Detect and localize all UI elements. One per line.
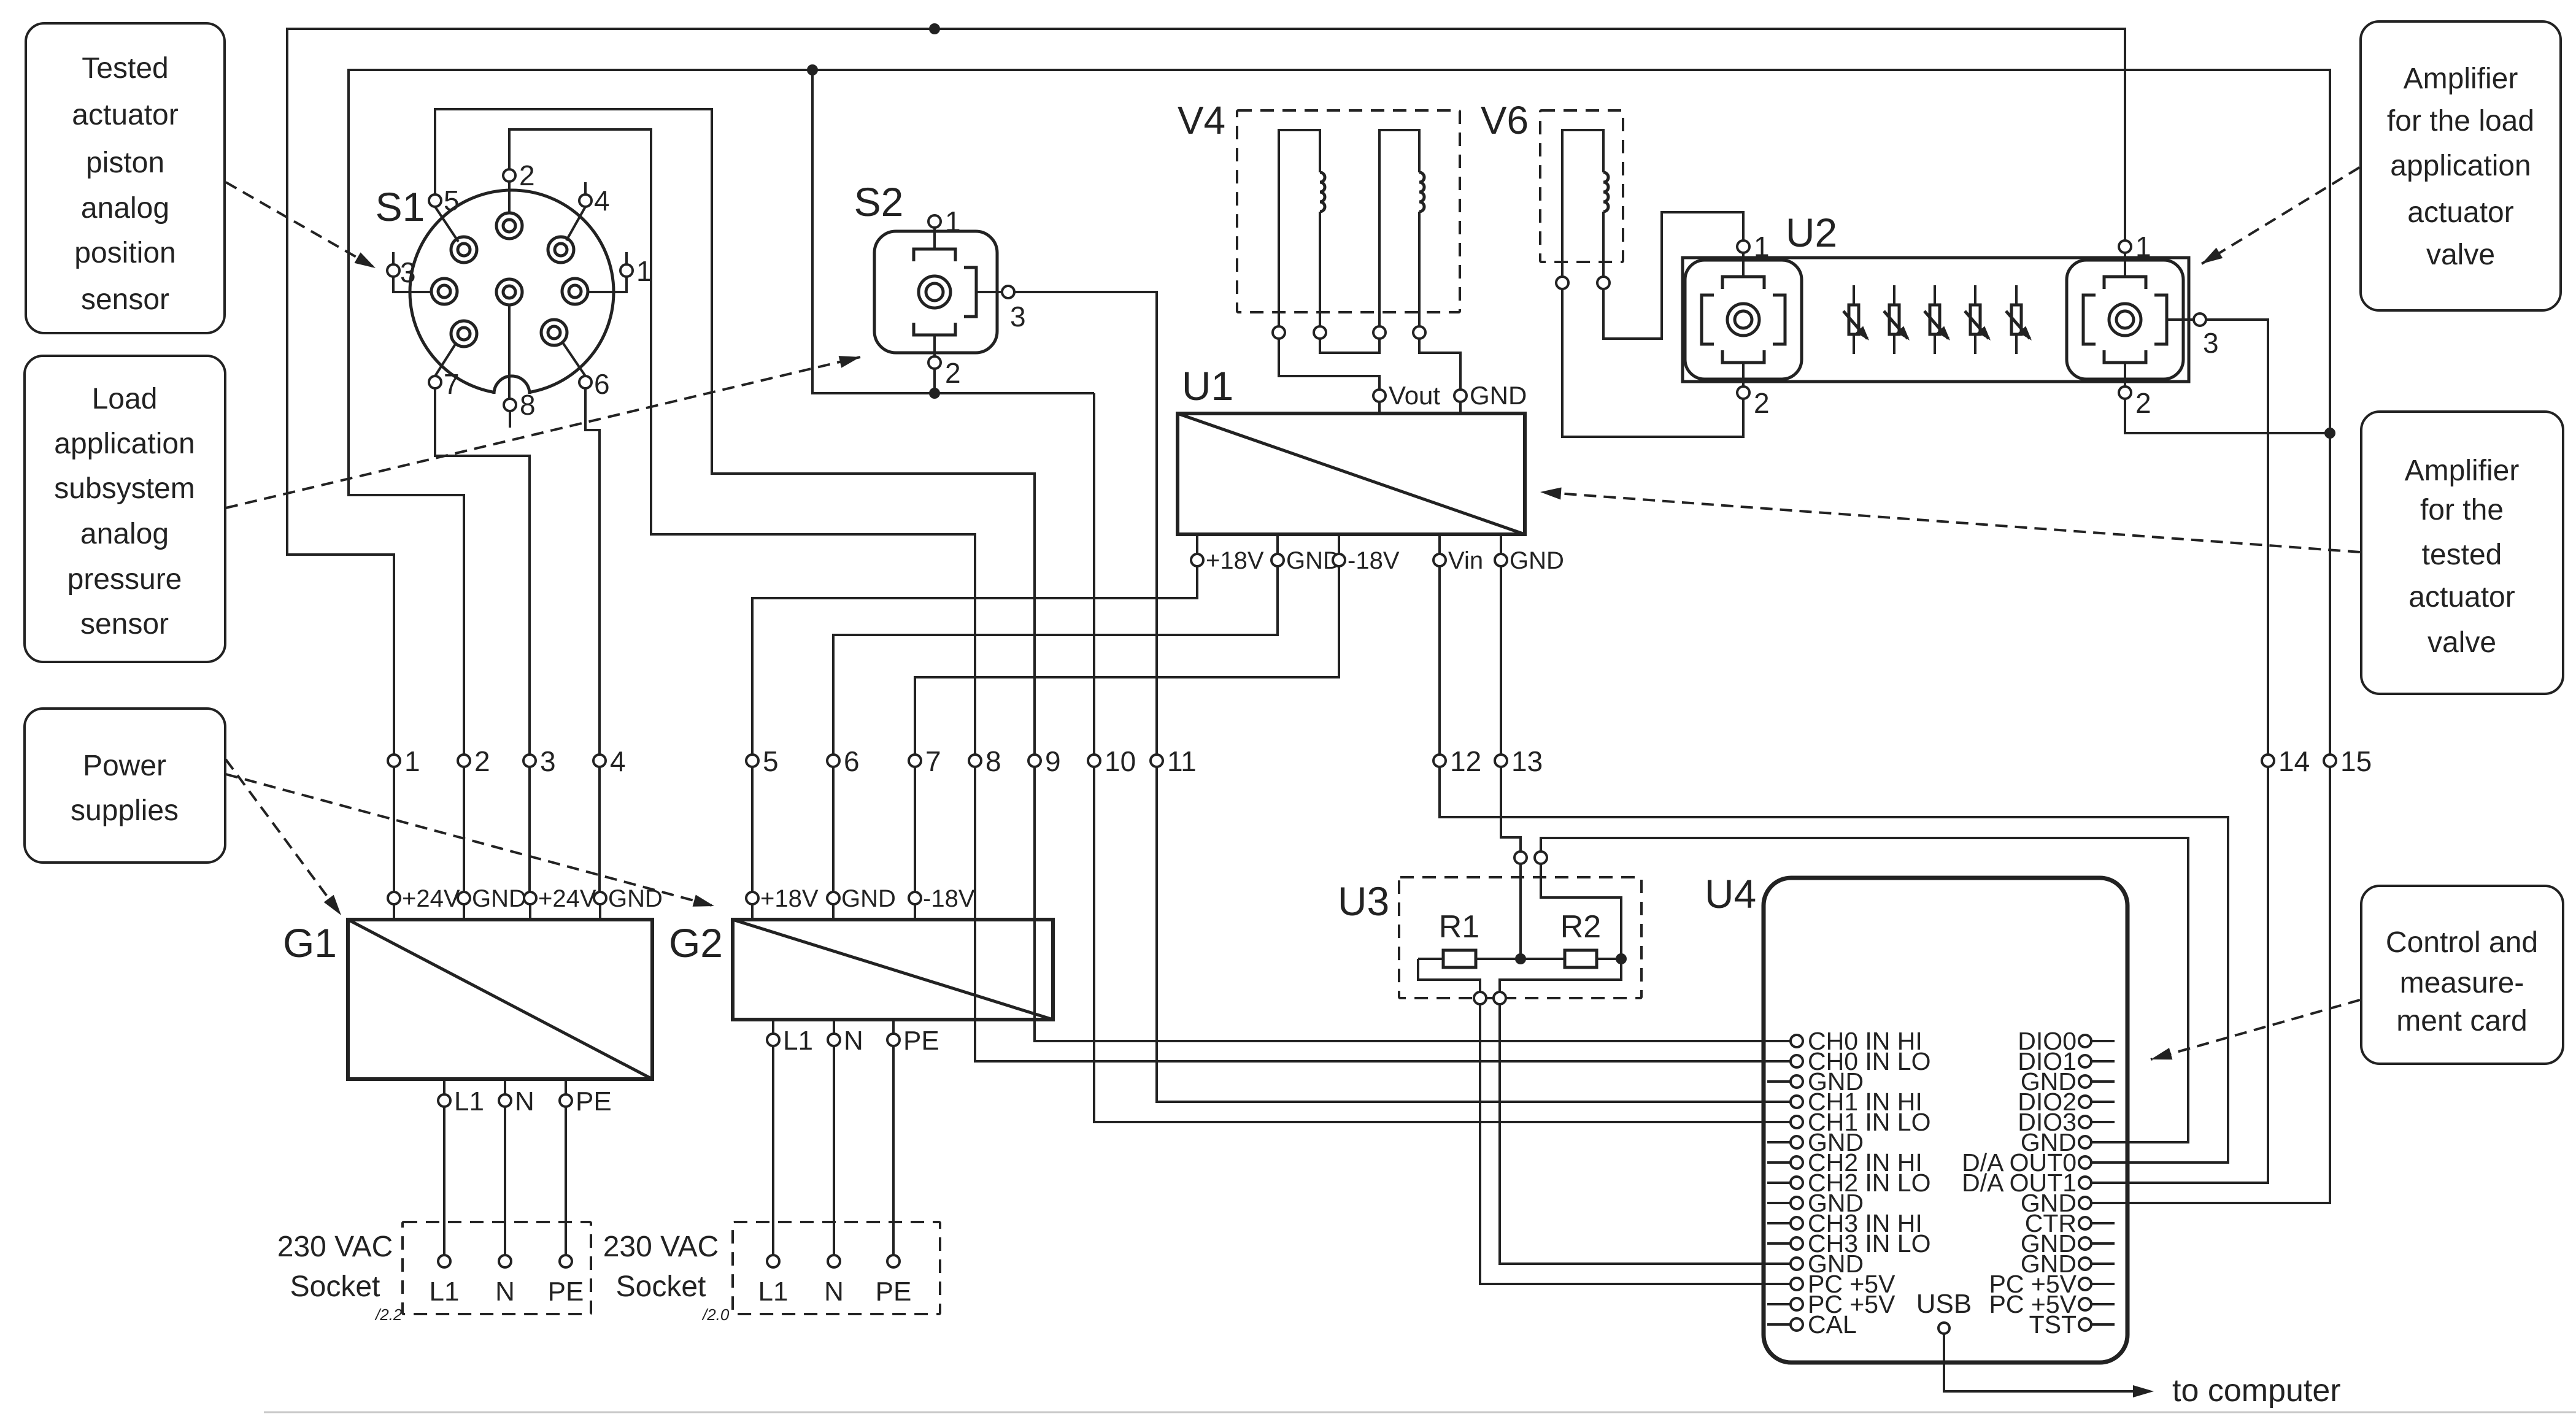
S2 bracket bottom (914, 323, 955, 335)
V6 dashed enclosure (1540, 110, 1623, 262)
wire S1 pin7 to terminal 3 / G1 +24V (435, 389, 530, 892)
arrow to computer (2133, 1385, 2154, 1397)
U4 left pin GND (row 12) (1791, 1258, 1803, 1270)
S2 pin2 lead (933, 335, 936, 356)
V4 coil branch 2 inductor (1419, 172, 1424, 212)
S1 inner contact 3 (548, 237, 574, 263)
wire U1 GND-top stub (1459, 402, 1462, 413)
U4 left pin PC +5V (row 14) (1767, 1303, 1791, 1305)
S1 pin 5 terminal (429, 194, 441, 207)
svg-text:5: 5 (444, 185, 460, 217)
U2 left pin 2 (1737, 386, 1749, 399)
svg-text:+24V: +24V (402, 885, 460, 912)
svg-text:3: 3 (400, 256, 416, 288)
svg-text:GND: GND (841, 885, 896, 912)
S2 pin 2 (928, 356, 941, 369)
socket 1 pin L1 (438, 1255, 450, 1267)
callout Power supplies (25, 709, 225, 863)
wire U2 pin3 to terminal 14 and U4 D/A OUT1 (2091, 320, 2268, 1183)
S1 internal link pin4 (566, 207, 585, 240)
svg-text:Vin: Vin (1448, 547, 1483, 574)
connector S2 body (874, 231, 997, 353)
svg-text:ment card: ment card (2396, 1005, 2527, 1037)
terminal 1 (388, 755, 400, 767)
G2 top pin GND (832, 904, 835, 920)
S1 internal link pin1 (588, 277, 627, 292)
G1 top pin GND (599, 904, 601, 920)
terminal 12 (1433, 755, 1446, 767)
power supply G2 body (733, 920, 1053, 1020)
U2 varistor 2 (1893, 285, 1895, 354)
U4 right pin DIO1 (row 2) (2091, 1060, 2115, 1063)
terminal 15 (2324, 755, 2336, 767)
svg-text:V6: V6 (1481, 98, 1529, 142)
S1 pin stub 1 (625, 252, 628, 264)
svg-text:GND: GND (1510, 547, 1564, 574)
svg-text:8: 8 (985, 745, 1001, 777)
svg-text:Amplifier: Amplifier (2405, 455, 2520, 487)
G2 bottom pin PE (892, 1020, 895, 1255)
svg-text:pressure: pressure (67, 563, 182, 596)
wire U1 -18V to terminal 7 / G2 -18V (915, 566, 1339, 892)
wire U1 Vin / terminal 12 to U4 D/A OUT0 (1440, 566, 2228, 1163)
U1 bottom pin Vin (1438, 534, 1441, 554)
U2 right bracket left (2083, 295, 2096, 344)
junction dot S2 pin2 node (929, 388, 940, 399)
wire S2 pin2 drop to terminal 10 and U4 CH1 IN LO (935, 369, 1797, 1122)
V4 coil branch 1 hairpin (1279, 130, 1320, 326)
svg-text:10: 10 (1105, 745, 1136, 777)
svg-text:4: 4 (594, 185, 610, 217)
svg-text:14: 14 (2278, 745, 2310, 777)
U4 right pin DIO0 (row 1) (2091, 1040, 2115, 1042)
terminal 2 (458, 755, 470, 767)
S1 pin 3 terminal (387, 264, 399, 277)
svg-text:piston: piston (86, 147, 164, 179)
junction dot S2 pin1 on +24V rail (929, 23, 940, 34)
U2 varistor 3 (1934, 285, 1936, 354)
resistor R1 (1418, 958, 1443, 960)
U4 left pin CH1 IN LO (row 5) (1791, 1116, 1803, 1128)
svg-text:2: 2 (945, 357, 961, 389)
svg-text:L1: L1 (783, 1026, 813, 1056)
S2 bracket top (914, 249, 955, 261)
U2 pin3 lead (2167, 318, 2194, 321)
svg-text:4: 4 (610, 745, 626, 777)
U2 left pin1 lead (1742, 253, 1745, 277)
socket 2 pin N (828, 1255, 840, 1267)
terminal 4 (593, 755, 606, 767)
U2 left pin 1 (1737, 240, 1749, 253)
svg-text:Power: Power (83, 750, 166, 782)
S1 pin stub 3 (392, 252, 395, 264)
amplifier U1 body (1178, 413, 1525, 534)
V4 coil branch 2 hairpin (1379, 130, 1419, 326)
U4 left pin CH0 IN LO (row 2) (1791, 1055, 1803, 1067)
U2 left bracket left (1702, 295, 1714, 344)
U1 pin GND top (1454, 390, 1467, 402)
socket 1 pin PE (560, 1255, 572, 1267)
230 VAC socket 1 dashed box (403, 1222, 591, 1314)
terminal 11 (1151, 755, 1163, 767)
junction dot R2 right node (1616, 953, 1627, 964)
svg-text:12: 12 (1450, 745, 1481, 777)
svg-text:sensor: sensor (80, 608, 169, 640)
svg-text:11: 11 (1167, 745, 1197, 777)
wire U1 +18V to terminal 5 / G2 +18V (752, 566, 1197, 892)
svg-text:U2: U2 (1786, 210, 1837, 255)
G2 bottom pin N (833, 1020, 835, 1255)
terminal 9 (1028, 755, 1041, 767)
svg-text:N: N (824, 1277, 844, 1307)
wire U3 bottom-right to U4 GND (1500, 1004, 1797, 1264)
V4 dashed enclosure (1237, 110, 1460, 312)
wire branch GND-A to S2 pin 2 (812, 70, 1094, 393)
U2 varistor 5 (2015, 285, 2018, 354)
terminal 7 (909, 755, 921, 767)
svg-text:9: 9 (1045, 745, 1061, 777)
svg-text:3: 3 (1010, 301, 1026, 332)
svg-text:/2.0: /2.0 (701, 1305, 730, 1324)
svg-text:8: 8 (520, 389, 536, 421)
U3 R2 right drop (1500, 959, 1621, 992)
U2 left bracket right (1773, 295, 1785, 344)
svg-text:USB: USB (1916, 1289, 1972, 1319)
U3 R1 left drop (1418, 959, 1480, 992)
S1 pin stub 4 (584, 182, 587, 194)
svg-text:+18V: +18V (760, 885, 819, 912)
U4 right pin DIO3 (row 5) (2091, 1121, 2115, 1123)
U3 terminal bottom-right (1494, 992, 1506, 1004)
S2 pin1 lead (933, 228, 936, 249)
U4 right pin GND (row 6) (2079, 1136, 2091, 1148)
svg-text:N: N (495, 1277, 515, 1307)
U2 pin 3 (2194, 313, 2206, 326)
wire U2 right pin2 to GND rail junction (2125, 399, 2330, 433)
U4 left pin CAL (row 15) (1767, 1323, 1791, 1326)
svg-text:R1: R1 (1439, 909, 1479, 945)
U1 bottom pin +18V (1196, 534, 1198, 554)
svg-text:230 VAC: 230 VAC (277, 1231, 393, 1263)
callout Load application subsystem analog pressure sensor (25, 356, 225, 662)
svg-text:6: 6 (844, 745, 860, 777)
callout arrow to S1 (226, 182, 376, 268)
wire V6 to U2 left pin1 (1603, 212, 1743, 339)
G1 bottom pin PE (565, 1079, 567, 1255)
svg-text:supplies: supplies (71, 794, 179, 827)
svg-text:13: 13 (1511, 745, 1543, 777)
U4 left pin GND (row 9) (1767, 1202, 1791, 1204)
svg-text:L1: L1 (430, 1277, 460, 1307)
S2 pin 3 (1002, 286, 1014, 298)
S1 internal link pin5 (435, 207, 458, 242)
U2 right connector contact (2109, 304, 2141, 336)
svg-text:G2: G2 (669, 920, 723, 966)
S2 bracket right (964, 267, 976, 317)
U2 right pin 1 (2119, 240, 2131, 253)
U4 right pin D/A OUT1 (row 8) (2079, 1177, 2091, 1189)
U1 bottom pin GND (1276, 534, 1279, 554)
U4 right pin TST (row 15) (2091, 1323, 2115, 1326)
svg-text:1: 1 (404, 745, 420, 777)
callout arrow to G1 (226, 759, 341, 915)
junction dot U2 right pin2 on GND drop (2324, 428, 2335, 439)
svg-text:sensor: sensor (81, 283, 169, 316)
S1 internal link pin6 (562, 342, 585, 376)
svg-text:1: 1 (945, 206, 961, 237)
svg-text:5: 5 (763, 745, 779, 777)
G1 top pin GND (463, 904, 465, 920)
U4 right pin PC +5V (row 13) (2091, 1283, 2115, 1285)
U4 left pin PC +5V (row 13) (1791, 1278, 1803, 1290)
svg-text:valve: valve (2426, 239, 2495, 271)
G1 top pin +24V (529, 904, 531, 920)
svg-text:1: 1 (636, 255, 652, 287)
V6 hairpin (1562, 130, 1603, 277)
svg-text:PE: PE (576, 1086, 612, 1116)
svg-text:Vout: Vout (1389, 381, 1440, 410)
U2 varistor 4 (1974, 285, 1976, 354)
svg-text:L1: L1 (758, 1277, 789, 1307)
callout arrow to S2 (226, 357, 860, 508)
svg-text:3: 3 (2203, 327, 2219, 359)
U2 varistor 1 (1853, 285, 1855, 354)
S1 inner contact 5 (496, 279, 522, 305)
S1 pin 2 terminal (503, 169, 515, 182)
svg-text:-18V: -18V (923, 885, 975, 912)
terminal 6 (827, 755, 839, 767)
svg-text:analog: analog (81, 192, 169, 225)
V4 branch 1 terminals (1273, 326, 1285, 339)
S1 internal link pin2 (508, 182, 511, 213)
U3 dashed enclosure (1399, 877, 1641, 998)
svg-text:Tested: Tested (82, 52, 168, 85)
svg-text:PE: PE (903, 1026, 939, 1056)
svg-text:/2.2: /2.2 (374, 1305, 403, 1324)
V4 branch 2 terminals (1373, 326, 1386, 339)
socket 1 pin N (499, 1255, 511, 1267)
U4 right pin GND (row 12) (2091, 1263, 2115, 1265)
svg-text:actuator: actuator (2407, 196, 2513, 229)
svg-text:CAL: CAL (1808, 1310, 1857, 1339)
svg-text:3: 3 (540, 745, 556, 777)
U4 left pin CH3 IN HI (row 10) (1767, 1222, 1791, 1224)
G2 top pin -18V (914, 904, 916, 920)
wire net +24V-A: terminal 1 / G1 +24V / top rail to S2 pin1 and U2 right pin1 (287, 29, 2125, 892)
connector S1 body circle (410, 190, 614, 394)
U4 right pin GND (row 9) (2079, 1197, 2091, 1209)
svg-text:-18V: -18V (1348, 547, 1400, 574)
svg-text:position: position (74, 237, 175, 269)
svg-text:measure-: measure- (2400, 967, 2524, 999)
U4 left pin CH2 IN LO (row 8) (1767, 1182, 1791, 1184)
wire V4 branch links to U1 Vout/GND (1279, 339, 1460, 390)
svg-text:Socket: Socket (290, 1270, 380, 1303)
svg-text:2: 2 (519, 159, 535, 191)
G1 bottom pin L1 (443, 1079, 445, 1255)
U4 right pin CTR (row 10) (2091, 1222, 2115, 1224)
U2 right bracket bottom (2104, 350, 2146, 363)
V6 terminals (1556, 277, 1568, 289)
S1 internal link pin8 (508, 305, 511, 399)
U2 right pin 2 (2119, 386, 2131, 399)
svg-text:+18V: +18V (1206, 547, 1264, 574)
U1 bottom pin GND (1500, 534, 1502, 554)
S2 center contact (919, 276, 951, 308)
svg-text:N: N (515, 1086, 534, 1116)
terminal 13 (1495, 755, 1507, 767)
wire U1 GND to terminal 6 / G2 GND (833, 566, 1278, 892)
terminal 14 (2262, 755, 2274, 767)
U2 right pin2 lead (2124, 363, 2126, 386)
G2 bottom pin L1 (772, 1020, 774, 1255)
svg-text:1: 1 (1754, 231, 1770, 263)
svg-text:S1: S1 (376, 184, 425, 229)
U3 node wire from top-left terminal (1519, 864, 1522, 959)
power supply G1 body (348, 920, 652, 1079)
amplifier U2 body (1683, 258, 2189, 382)
svg-text:U4: U4 (1705, 871, 1756, 917)
S1 pin stub 8 (509, 411, 511, 428)
S1 internal link pin3 (393, 277, 431, 292)
wire S2 pin3 to terminal 11 and U4 CH1 IN HI (1014, 292, 1797, 1102)
socket 2 pin PE (887, 1255, 900, 1267)
svg-text:Amplifier: Amplifier (2404, 63, 2518, 95)
svg-text:+24V: +24V (538, 885, 596, 912)
U2 right pin1 lead (2124, 253, 2126, 277)
svg-text:7: 7 (444, 368, 460, 400)
svg-text:L1: L1 (454, 1086, 484, 1116)
S1 pin 4 terminal (579, 194, 592, 207)
svg-text:U1: U1 (1182, 363, 1233, 409)
S1 internal link pin7 (435, 342, 457, 376)
svg-text:valve: valve (2428, 626, 2496, 659)
svg-text:GND: GND (472, 885, 526, 912)
S1 pin 8 terminal (504, 399, 516, 411)
wire S1 pin6 to terminal 4 / G1 GND (585, 389, 600, 892)
G1 top pin +24V (393, 904, 395, 920)
wire S1 pin5 to terminal 9 and U4 CH0 IN HI (435, 109, 1797, 1041)
U1 pin Vout (1373, 390, 1386, 402)
U2 left bracket bottom (1722, 350, 1764, 363)
terminal 10 (1088, 755, 1100, 767)
U4 right pin PC +5V (row 14) (2091, 1303, 2115, 1305)
callout Amplifier for the load application actuator valve (2361, 21, 2561, 310)
terminal 3 (523, 755, 536, 767)
wire USB to computer (1944, 1334, 2140, 1391)
U4 right pin GND (row 11) (2091, 1242, 2115, 1245)
svg-text:S2: S2 (854, 179, 904, 225)
U2 left connector (1685, 260, 1802, 379)
U4 left pin CH1 IN HI (row 4) (1791, 1096, 1803, 1108)
svg-text:2: 2 (2135, 387, 2151, 419)
S1 pin 6 terminal (579, 376, 592, 388)
U2 right connector (2067, 260, 2183, 379)
U4 right pin DIO2 (row 4) (2091, 1101, 2115, 1103)
S1 inner contact 7 (451, 321, 477, 347)
230 VAC socket 2 dashed box (733, 1222, 940, 1314)
U3 terminal bottom-left (1474, 992, 1486, 1004)
junction dot R1-R2 node (1515, 953, 1526, 964)
control card U4 body (1764, 878, 2127, 1362)
U3 terminal top-left (1514, 851, 1527, 864)
resistor R2 (1565, 950, 1597, 967)
svg-text:TST: TST (2029, 1310, 2077, 1339)
svg-text:U3: U3 (1338, 878, 1389, 924)
svg-text:for the: for the (2420, 494, 2504, 526)
U4 left pin CH3 IN LO (row 11) (1767, 1242, 1791, 1245)
callout Control and measurement card (2361, 886, 2563, 1064)
svg-text:Load: Load (92, 383, 158, 415)
V4 coil branch 1 inductor (1320, 172, 1325, 212)
wire U3 top-right to U4 GND (DIO side) (1541, 838, 2188, 1142)
U4 right pin D/A OUT0 (row 7) (2079, 1156, 2091, 1169)
svg-text:230 VAC: 230 VAC (603, 1231, 719, 1263)
U3 terminal top-right (1535, 851, 1547, 864)
svg-text:for the load: for the load (2387, 105, 2534, 137)
S1 inner contact 6 (562, 279, 588, 304)
svg-text:PE: PE (548, 1277, 584, 1307)
svg-text:V4: V4 (1178, 98, 1225, 142)
G2 top pin +18V (751, 904, 754, 920)
wire U2 right pin1 riser (2124, 240, 2126, 253)
S1 inner contact 1 (496, 213, 522, 239)
callout Tested actuator piston analog position sensor (26, 23, 225, 333)
svg-text:7: 7 (925, 745, 941, 777)
U1 bottom pin -18V (1338, 534, 1340, 554)
S2 pin 1 (928, 215, 941, 228)
svg-text:analog: analog (80, 518, 169, 550)
G1 bottom pin N (504, 1079, 506, 1255)
U2 left bracket top (1722, 277, 1764, 289)
svg-text:2: 2 (474, 745, 490, 777)
svg-text:subsystem: subsystem (54, 472, 195, 505)
svg-text:actuator: actuator (2408, 581, 2515, 613)
S1 pin 1 terminal (620, 264, 633, 277)
U4 left pin GND (row 6) (1767, 1141, 1791, 1143)
callout arrow to G2 (226, 774, 714, 906)
wire U1 Vout stub (1378, 402, 1381, 413)
terminal 5 (746, 755, 758, 767)
S1 inner contact 4 (431, 279, 457, 304)
svg-text:to computer: to computer (2172, 1373, 2341, 1409)
svg-text:R2: R2 (1560, 909, 1601, 945)
S1 pin 7 terminal (429, 376, 441, 388)
callout arrow to U1 (1540, 492, 2360, 552)
wire S1 pin2 to terminal 8 and U4 CH0 IN LO (509, 129, 1797, 1061)
callout Amplifier for the tested actuator valve (2361, 412, 2563, 694)
U2 left connector contact (1727, 304, 1759, 336)
svg-text:G1: G1 (283, 920, 337, 966)
U4 right pin GND (row 3) (2091, 1080, 2115, 1083)
socket 2 pin L1 (767, 1255, 779, 1267)
svg-text:actuator: actuator (72, 99, 178, 131)
U2 right bracket top (2104, 277, 2146, 289)
svg-text:N: N (844, 1026, 863, 1056)
U2 right bracket right (2154, 295, 2167, 344)
svg-text:Control and: Control and (2386, 926, 2538, 959)
connector S1 bottom notch (493, 380, 530, 417)
U4 left pin CH0 IN HI (row 1) (1791, 1035, 1803, 1047)
svg-text:2: 2 (1754, 387, 1770, 419)
S1 inner contact 2 (451, 237, 477, 263)
svg-text:Socket: Socket (616, 1270, 706, 1303)
page bottom edge artifact (264, 1412, 2576, 1413)
svg-text:15: 15 (2340, 745, 2372, 777)
U4 left pin GND (row 3) (1767, 1080, 1791, 1083)
junction dot GND rail branch (807, 64, 818, 75)
callout arrow to U4 (2151, 1000, 2360, 1059)
